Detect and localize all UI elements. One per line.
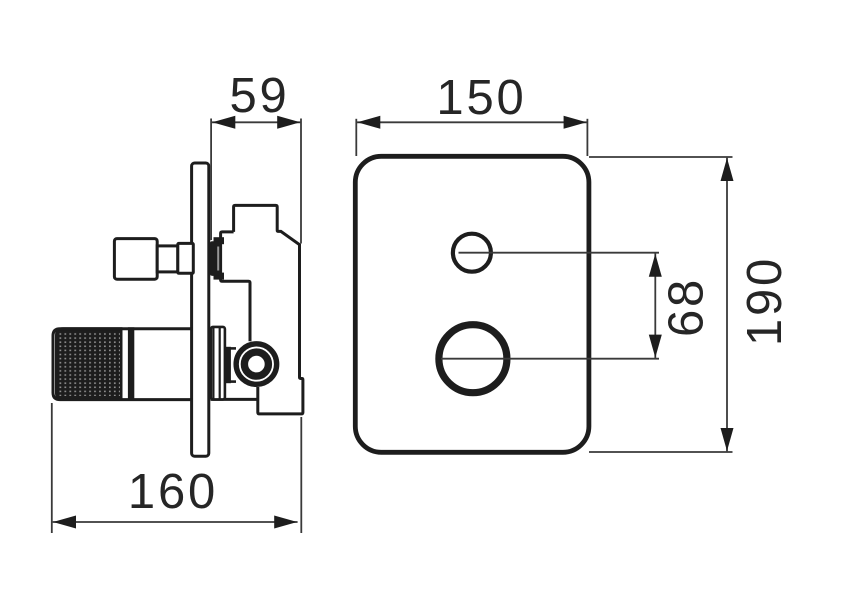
upper diverter knob: main cube (114, 239, 157, 280)
knurl dot texture (58, 332, 120, 396)
knurled adapter behind plate (upper) (214, 237, 225, 244)
dimension 190: extension lines (589, 156, 733, 158)
svg-text:150: 150 (436, 71, 526, 125)
face plate front view (355, 156, 589, 452)
dimension 59: extension lines (210, 119, 212, 241)
svg-text:190: 190 (738, 256, 792, 346)
svg-text:68: 68 (660, 277, 714, 337)
upper knob collar at plate (178, 243, 194, 273)
knob separator ring (128, 327, 134, 401)
lower temperature knob: knurled grip dark fill (55, 327, 123, 401)
dimension 59: dimension line with arrows (212, 121, 301, 123)
dimension 68: dimension line with arrows (654, 253, 656, 358)
center line large circle (68 bottom extension) (441, 358, 659, 360)
dimension 160: dimension line with arrows (53, 521, 298, 523)
dimension 150: dimension line with arrows (357, 121, 587, 123)
dark valve stem between collar and ring (225, 347, 231, 383)
svg-text:59: 59 (229, 69, 289, 123)
ring nut on valve body (side view) (234, 341, 280, 387)
upper knob stem (157, 246, 178, 272)
valve body left profile with step (221, 232, 250, 341)
dimension 150: extension lines (355, 119, 357, 156)
wall plate (side view) (192, 163, 209, 456)
valve body lower-left step edge (211, 398, 258, 401)
dimension 160: extension lines (51, 403, 53, 533)
svg-text:160: 160 (128, 465, 218, 519)
lower knob outline (53, 329, 193, 400)
temperature knob (large circle) (439, 325, 507, 393)
valve body upper cap and right profile (234, 205, 303, 414)
diverter button (small circle) (453, 234, 491, 272)
cartridge collar behind plate (lower) (211, 327, 225, 400)
dimension 190: dimension line with arrows (726, 158, 728, 452)
center line small circle (68 top extension) (459, 252, 660, 254)
